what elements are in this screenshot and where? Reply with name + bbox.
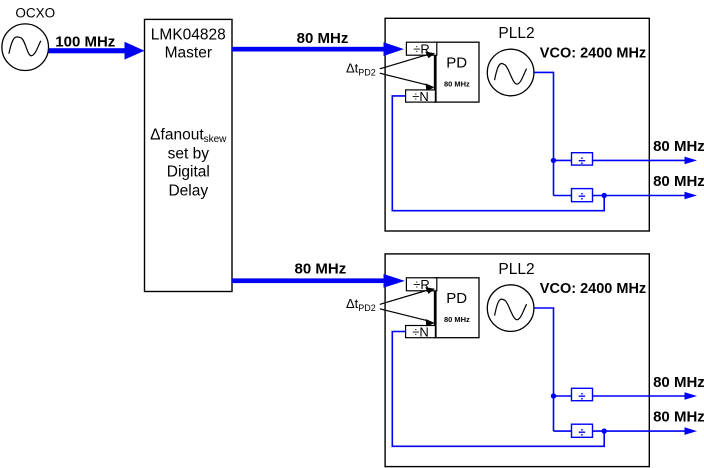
svg-text:PLL2: PLL2 [498, 25, 534, 42]
svg-text:80 MHz: 80 MHz [653, 173, 704, 190]
svg-text:÷N: ÷N [412, 89, 429, 104]
svg-text:Master: Master [165, 45, 212, 62]
svg-text:80 MHz: 80 MHz [444, 79, 470, 88]
svg-text:÷: ÷ [578, 153, 585, 168]
svg-text:set by: set by [168, 145, 210, 162]
svg-text:80 MHz: 80 MHz [297, 30, 349, 47]
svg-text:PD: PD [446, 55, 467, 72]
svg-text:÷: ÷ [578, 189, 585, 204]
svg-text:80 MHz: 80 MHz [295, 261, 347, 278]
svg-text:OCXO: OCXO [15, 6, 55, 21]
svg-text:80 MHz: 80 MHz [653, 138, 704, 155]
svg-text:VCO: 2400 MHz: VCO: 2400 MHz [540, 46, 646, 62]
svg-text:Delay: Delay [168, 182, 208, 199]
svg-text:LMK04828: LMK04828 [151, 27, 226, 44]
svg-text:100 MHz: 100 MHz [55, 33, 115, 50]
svg-text:Digital: Digital [167, 163, 210, 180]
